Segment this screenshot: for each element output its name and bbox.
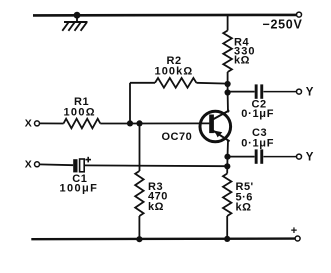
resistor R3 bbox=[135, 123, 143, 239]
wire base line bbox=[100, 122, 209, 124]
resistor R1 bbox=[64, 119, 101, 129]
svg-text:X: X bbox=[25, 158, 33, 170]
node base/R3 junction bbox=[136, 120, 142, 126]
terminal X upper bbox=[25, 118, 40, 130]
wire X to R1 bbox=[40, 122, 64, 124]
svg-text:100μF: 100μF bbox=[60, 183, 99, 195]
wire top supply rail bbox=[33, 14, 296, 17]
terminal + bbox=[291, 225, 300, 241]
wire emitter to lower junction bbox=[226, 157, 228, 167]
label R3 470 kΩ bbox=[148, 181, 168, 213]
terminal -250V bbox=[263, 12, 303, 32]
label R5 5.6 kΩ bbox=[236, 181, 254, 214]
svg-text:Y: Y bbox=[306, 87, 314, 99]
resistor R4 bbox=[223, 15, 232, 84]
wire X to C1 bbox=[40, 163, 74, 166]
svg-text:kΩ: kΩ bbox=[236, 202, 252, 214]
capacitor C3 bbox=[228, 149, 297, 163]
wire C1 to emitter junction bbox=[84, 164, 227, 167]
svg-text:+: + bbox=[291, 225, 298, 237]
transistor Q1 OC70 bbox=[200, 110, 231, 141]
svg-text:100Ω: 100Ω bbox=[64, 106, 96, 118]
node emitter/C3 junction bbox=[224, 154, 230, 160]
label C1 100uF bbox=[60, 173, 99, 195]
label C3 0.1uF bbox=[241, 127, 274, 149]
wire between junctions bbox=[227, 84, 229, 93]
wire bottom rail bbox=[31, 237, 295, 240]
wire collector lead bbox=[227, 93, 229, 113]
node emitter/C1 junction bbox=[224, 163, 230, 169]
svg-text:X: X bbox=[25, 118, 33, 130]
svg-text:−250V: −250V bbox=[263, 18, 303, 32]
node base/R2 junction bbox=[127, 120, 133, 126]
label C2 0.1uF bbox=[241, 99, 274, 120]
label R4 330 kΩ bbox=[234, 37, 256, 67]
node R3/bottom rail bbox=[136, 236, 142, 242]
wire emitter lead bbox=[227, 141, 230, 157]
capacitor C1 electrolytic bbox=[73, 157, 91, 173]
terminal X lower bbox=[25, 158, 40, 170]
svg-text:OC70: OC70 bbox=[162, 131, 193, 143]
svg-text:kΩ: kΩ bbox=[148, 201, 164, 213]
svg-text:0·1μF: 0·1μF bbox=[241, 137, 274, 149]
svg-text:0·1μF: 0·1μF bbox=[241, 108, 274, 120]
terminal Y lower bbox=[297, 152, 314, 164]
node R4/R2 junction bbox=[225, 81, 231, 87]
resistor R2 bbox=[130, 78, 228, 123]
capacitor C2 bbox=[228, 84, 297, 98]
resistor R5 bbox=[223, 166, 231, 239]
label R2 100kΩ bbox=[155, 55, 194, 77]
label R1 100Ω bbox=[64, 96, 96, 118]
svg-text:Y: Y bbox=[306, 152, 314, 164]
terminal Y upper bbox=[297, 87, 314, 99]
svg-text:kΩ: kΩ bbox=[234, 54, 250, 66]
node R5/bottom rail bbox=[224, 236, 230, 242]
svg-text:100kΩ: 100kΩ bbox=[155, 65, 194, 77]
ground bbox=[62, 12, 87, 31]
node collector/C2 junction bbox=[225, 89, 231, 95]
